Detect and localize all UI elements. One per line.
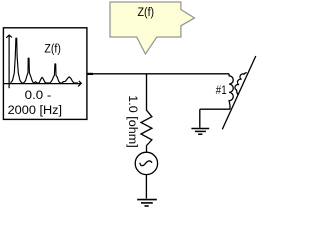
wire: winding 1 bottom lead xyxy=(200,108,230,110)
plot y-axis xyxy=(6,35,12,88)
ground (transformer winding 1) xyxy=(191,129,209,135)
impedance vs frequency curve xyxy=(11,38,78,83)
wire: source to ground xyxy=(145,175,147,199)
resistor R1 (1.0 ohm) xyxy=(141,110,152,152)
svg-text:1.0 [ohm]: 1.0 [ohm] xyxy=(126,95,138,148)
ground (below source) xyxy=(137,200,157,206)
plot x-axis xyxy=(4,81,81,87)
impedance monitor block U1 (Z(f) plot box) xyxy=(3,28,87,120)
transformer T1 winding 1 coil xyxy=(229,74,233,109)
transformer T1 winding 2 coil xyxy=(235,73,247,95)
svg-text:Z(f): Z(f) xyxy=(44,41,61,55)
svg-text:2000 [Hz]: 2000 [Hz] xyxy=(8,103,63,117)
AC voltage source V1 xyxy=(135,152,157,174)
wire: down to transformer ground xyxy=(199,109,201,128)
annotation callout bubble xyxy=(110,2,195,54)
port stub on monitor block xyxy=(88,73,93,75)
svg-text:#1: #1 xyxy=(216,83,227,97)
wire: monitor block to transformer winding 1 xyxy=(88,73,230,75)
svg-text:Z(f): Z(f) xyxy=(138,5,155,19)
svg-text:0.0 -: 0.0 - xyxy=(25,88,52,102)
wire: tee junction down to resistor xyxy=(146,74,148,111)
transformer T1 winding 2 lead (diagonal) xyxy=(222,56,256,129)
